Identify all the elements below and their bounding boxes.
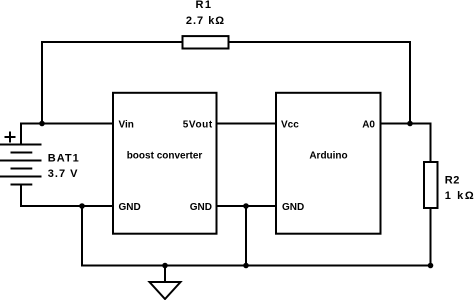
- resistor R2: [424, 162, 438, 208]
- Arduino box U2: [276, 93, 381, 234]
- svg-text:2.7 kΩ: 2.7 kΩ: [186, 15, 225, 27]
- svg-text:Arduino: Arduino: [309, 151, 347, 162]
- battery - terminal stub: [20, 184, 22, 207]
- wire R2 bottom to ground rail: [430, 209, 432, 267]
- wire battery + to Vin: [20, 123, 113, 125]
- boost converter box U1: [113, 93, 217, 234]
- battery BAT1 plates: [0, 145, 42, 185]
- wire A0 to right rail: [381, 123, 431, 125]
- svg-text:GND: GND: [282, 202, 304, 213]
- node ground symbol junction: [162, 263, 168, 269]
- node GND drop on ground rail: [243, 263, 249, 269]
- wire right vertical (R1 to A0 node): [409, 41, 411, 124]
- svg-text:R2: R2: [445, 175, 460, 187]
- battery BAT1 plus sign: [5, 132, 16, 143]
- wire right vertical to R2 top: [430, 123, 432, 162]
- svg-text:3.7 V: 3.7 V: [48, 168, 79, 180]
- wire left vertical (R1 to battery + node): [41, 41, 43, 124]
- svg-text:5Vout: 5Vout: [183, 120, 213, 131]
- wire top-left horizontal (R1 left lead): [42, 41, 182, 43]
- node battery+/R1 junction: [39, 121, 45, 127]
- svg-text:A0: A0: [362, 120, 375, 131]
- node A0/R1/R2 junction: [407, 121, 413, 127]
- ground symbol: [150, 282, 181, 299]
- svg-text:GND: GND: [190, 202, 212, 213]
- wire 5Vout to Vcc: [217, 123, 277, 125]
- wire top-right horizontal (R1 right lead): [230, 41, 411, 43]
- wire ground stub: [164, 265, 166, 283]
- svg-text:boost converter: boost converter: [127, 151, 203, 162]
- wire drop from GND node to ground rail: [245, 205, 247, 267]
- resistor R1: [183, 36, 229, 48]
- svg-text:Vin: Vin: [119, 120, 134, 131]
- wire drop from battery- node to ground rail: [81, 205, 83, 267]
- svg-text:BAT1: BAT1: [48, 153, 80, 165]
- svg-text:GND: GND: [119, 202, 141, 213]
- node GND junction between boxes: [243, 203, 249, 209]
- battery + terminal stub: [20, 123, 22, 146]
- wire boost GND to Arduino GND: [217, 205, 277, 207]
- svg-text:1 kΩ: 1 kΩ: [445, 190, 474, 202]
- node R2/ground-rail junction: [428, 263, 434, 269]
- svg-text:R1: R1: [195, 0, 212, 11]
- svg-text:Vcc: Vcc: [281, 120, 299, 131]
- node battery-/ground-rail junction: [79, 203, 85, 209]
- ground rail wire: [81, 265, 432, 267]
- wire battery - to boost GND: [20, 205, 113, 207]
